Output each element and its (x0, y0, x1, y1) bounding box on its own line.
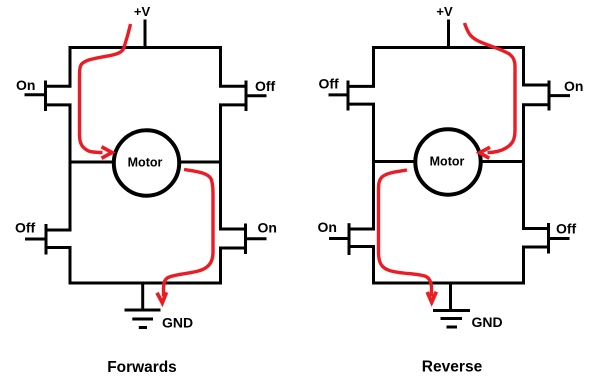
svg-text:Motor: Motor (430, 155, 465, 169)
wire left leg middle segment (Forwards) (69, 105, 72, 230)
transistor Q6 top-right (Reverse) (522, 81, 570, 111)
wire +V stem (Forwards) (144, 20, 147, 50)
motor M2 (Reverse) (415, 129, 480, 194)
wire right leg middle segment (Forwards) (219, 105, 222, 229)
wire top rail (Reverse) (372, 46, 525, 49)
current flow arrow: +V through Q6 into motor (Reverse) (465, 23, 516, 158)
transistor Q7 bottom-left (Reverse) (329, 223, 375, 255)
svg-text:Off: Off (255, 78, 276, 94)
wire bottom rail (Forwards) (69, 282, 223, 285)
wire +V stem (Reverse) (447, 20, 450, 50)
svg-text:Forwards: Forwards (107, 359, 177, 376)
wire motor right lead (Reverse) (482, 160, 524, 163)
wire left leg upper segment (Forwards) (69, 46, 72, 86)
wire right leg lower segment (Reverse) (522, 247, 525, 285)
current flow arrow: motor through Q4 to GND (Forwards) (157, 170, 213, 303)
svg-text:+V: +V (436, 4, 453, 19)
wire motor left lead (Forwards) (70, 161, 114, 164)
svg-text:Reverse: Reverse (422, 359, 483, 376)
current flow arrow: motor through Q7 to GND (Reverse) (379, 170, 437, 302)
svg-text:+V: +V (134, 4, 151, 19)
wire top rail (Forwards) (69, 46, 223, 49)
svg-text:Motor: Motor (128, 156, 163, 170)
wire left leg middle segment (Reverse) (372, 104, 375, 229)
ground symbol (Reverse) (433, 283, 470, 327)
svg-text:Off: Off (319, 76, 340, 92)
transistor Q5 top-left (Reverse) (329, 81, 376, 111)
wire motor right lead (Forwards) (181, 161, 221, 164)
transistor Q4 bottom-right (Forwards) (219, 224, 267, 255)
transistor Q8 bottom-right (Reverse) (522, 223, 570, 254)
wire left leg upper segment (Reverse) (372, 46, 375, 86)
wire right leg lower segment (Forwards) (219, 248, 222, 285)
transistor Q2 top-right (Forwards) (219, 81, 267, 112)
svg-text:On: On (258, 220, 277, 236)
wire right leg upper segment (Forwards) (219, 46, 222, 86)
wire left leg lower segment (Forwards) (69, 248, 72, 285)
wire motor left lead (Reverse) (374, 160, 417, 163)
svg-text:On: On (16, 77, 35, 93)
ground symbol (Forwards) (125, 283, 161, 328)
wire left leg lower segment (Reverse) (372, 247, 375, 285)
svg-text:Off: Off (15, 220, 36, 236)
wire right leg upper segment (Reverse) (522, 46, 525, 85)
svg-text:On: On (564, 78, 583, 94)
svg-text:Off: Off (556, 221, 577, 237)
transistor Q3 bottom-left (Forwards) (25, 224, 72, 255)
svg-text:GND: GND (162, 315, 193, 331)
svg-text:On: On (318, 219, 337, 235)
transistor Q1 top-left (Forwards) (25, 81, 72, 112)
wire right leg middle segment (Reverse) (522, 105, 525, 229)
svg-text:GND: GND (472, 314, 503, 330)
current flow arrow: +V through Q1 into motor (Forwards) (80, 24, 131, 158)
wire bottom rail (Reverse) (372, 282, 525, 285)
motor M1 (Forwards) (114, 130, 179, 195)
